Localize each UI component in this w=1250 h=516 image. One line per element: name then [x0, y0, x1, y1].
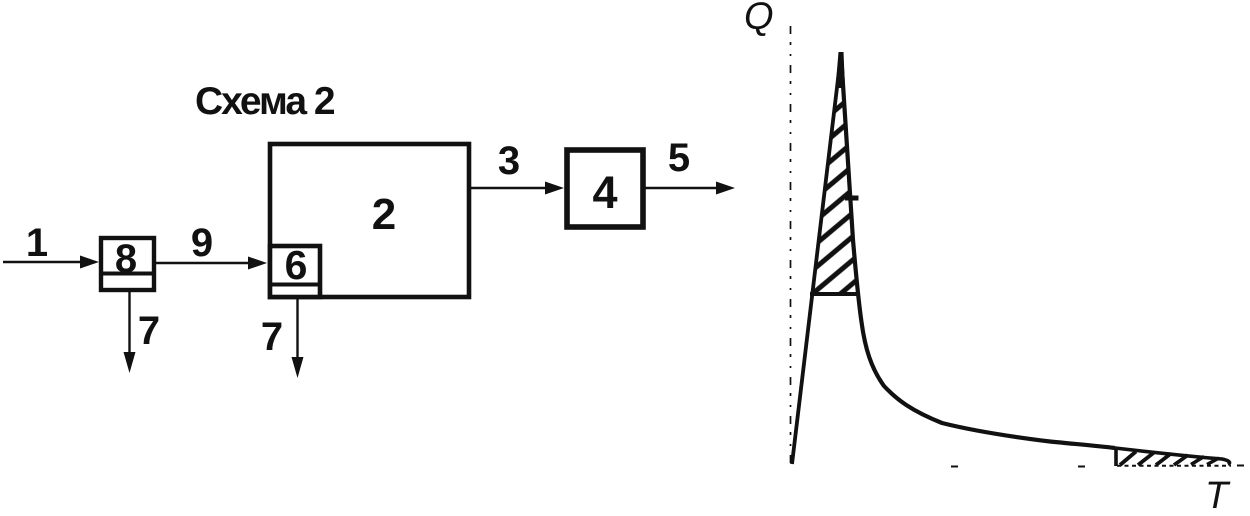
block 8 divider	[100, 272, 155, 276]
small tick on curve	[845, 196, 859, 201]
horizontal line under hatched peak	[810, 292, 860, 296]
sliver hatch stroke d	[1174, 455, 1188, 465]
sliver hatch stroke f	[1207, 458, 1219, 465]
svg-text:Схема 2: Схема 2	[195, 80, 335, 123]
sliver hatch stroke e	[1191, 457, 1204, 465]
block 6	[270, 246, 320, 297]
tail hatched sliver left edge	[1114, 448, 1118, 466]
block 6 divider	[268, 283, 322, 287]
baseline dash 2	[1078, 466, 1085, 468]
arrow 9 (block 8 to block 6)	[156, 262, 251, 264]
svg-text:7: 7	[261, 315, 283, 359]
svg-text:T: T	[1205, 475, 1231, 516]
solid apex wedge	[836, 52, 846, 88]
dashed Q axis	[790, 26, 792, 467]
down arrow from block 6	[296, 299, 298, 361]
arrow 5 (block 4 output)	[645, 187, 718, 189]
arrow 1 (input to block 8)	[3, 261, 83, 263]
svg-text:9: 9	[191, 221, 213, 265]
svg-text:7: 7	[138, 309, 160, 353]
rising curve line	[792, 54, 841, 464]
baseline dash 3	[1237, 465, 1244, 467]
decaying curve	[841, 54, 1115, 448]
svg-text:3: 3	[498, 139, 520, 183]
sliver dotted baseline	[1117, 465, 1231, 467]
svg-text:2: 2	[372, 190, 396, 239]
sliver hatch stroke a	[1120, 452, 1136, 466]
sliver top edge (curve continuation)	[1115, 448, 1230, 465]
svg-text:6: 6	[285, 242, 308, 288]
svg-text:5: 5	[668, 136, 690, 180]
baseline dash 1	[951, 466, 958, 468]
block 4	[567, 150, 643, 227]
svg-text:Q: Q	[744, 0, 774, 38]
svg-text:1: 1	[26, 221, 48, 265]
sliver hatch stroke b	[1138, 453, 1154, 466]
block 2	[270, 144, 469, 297]
arrow 3 (block 2 to block 4)	[471, 187, 548, 189]
down arrow from block 8	[128, 292, 130, 356]
svg-text:8: 8	[115, 237, 137, 281]
sliver hatch stroke c	[1156, 454, 1171, 466]
hatched peak region	[813, 56, 858, 292]
svg-text:4: 4	[592, 167, 617, 218]
block 8	[101, 238, 154, 290]
